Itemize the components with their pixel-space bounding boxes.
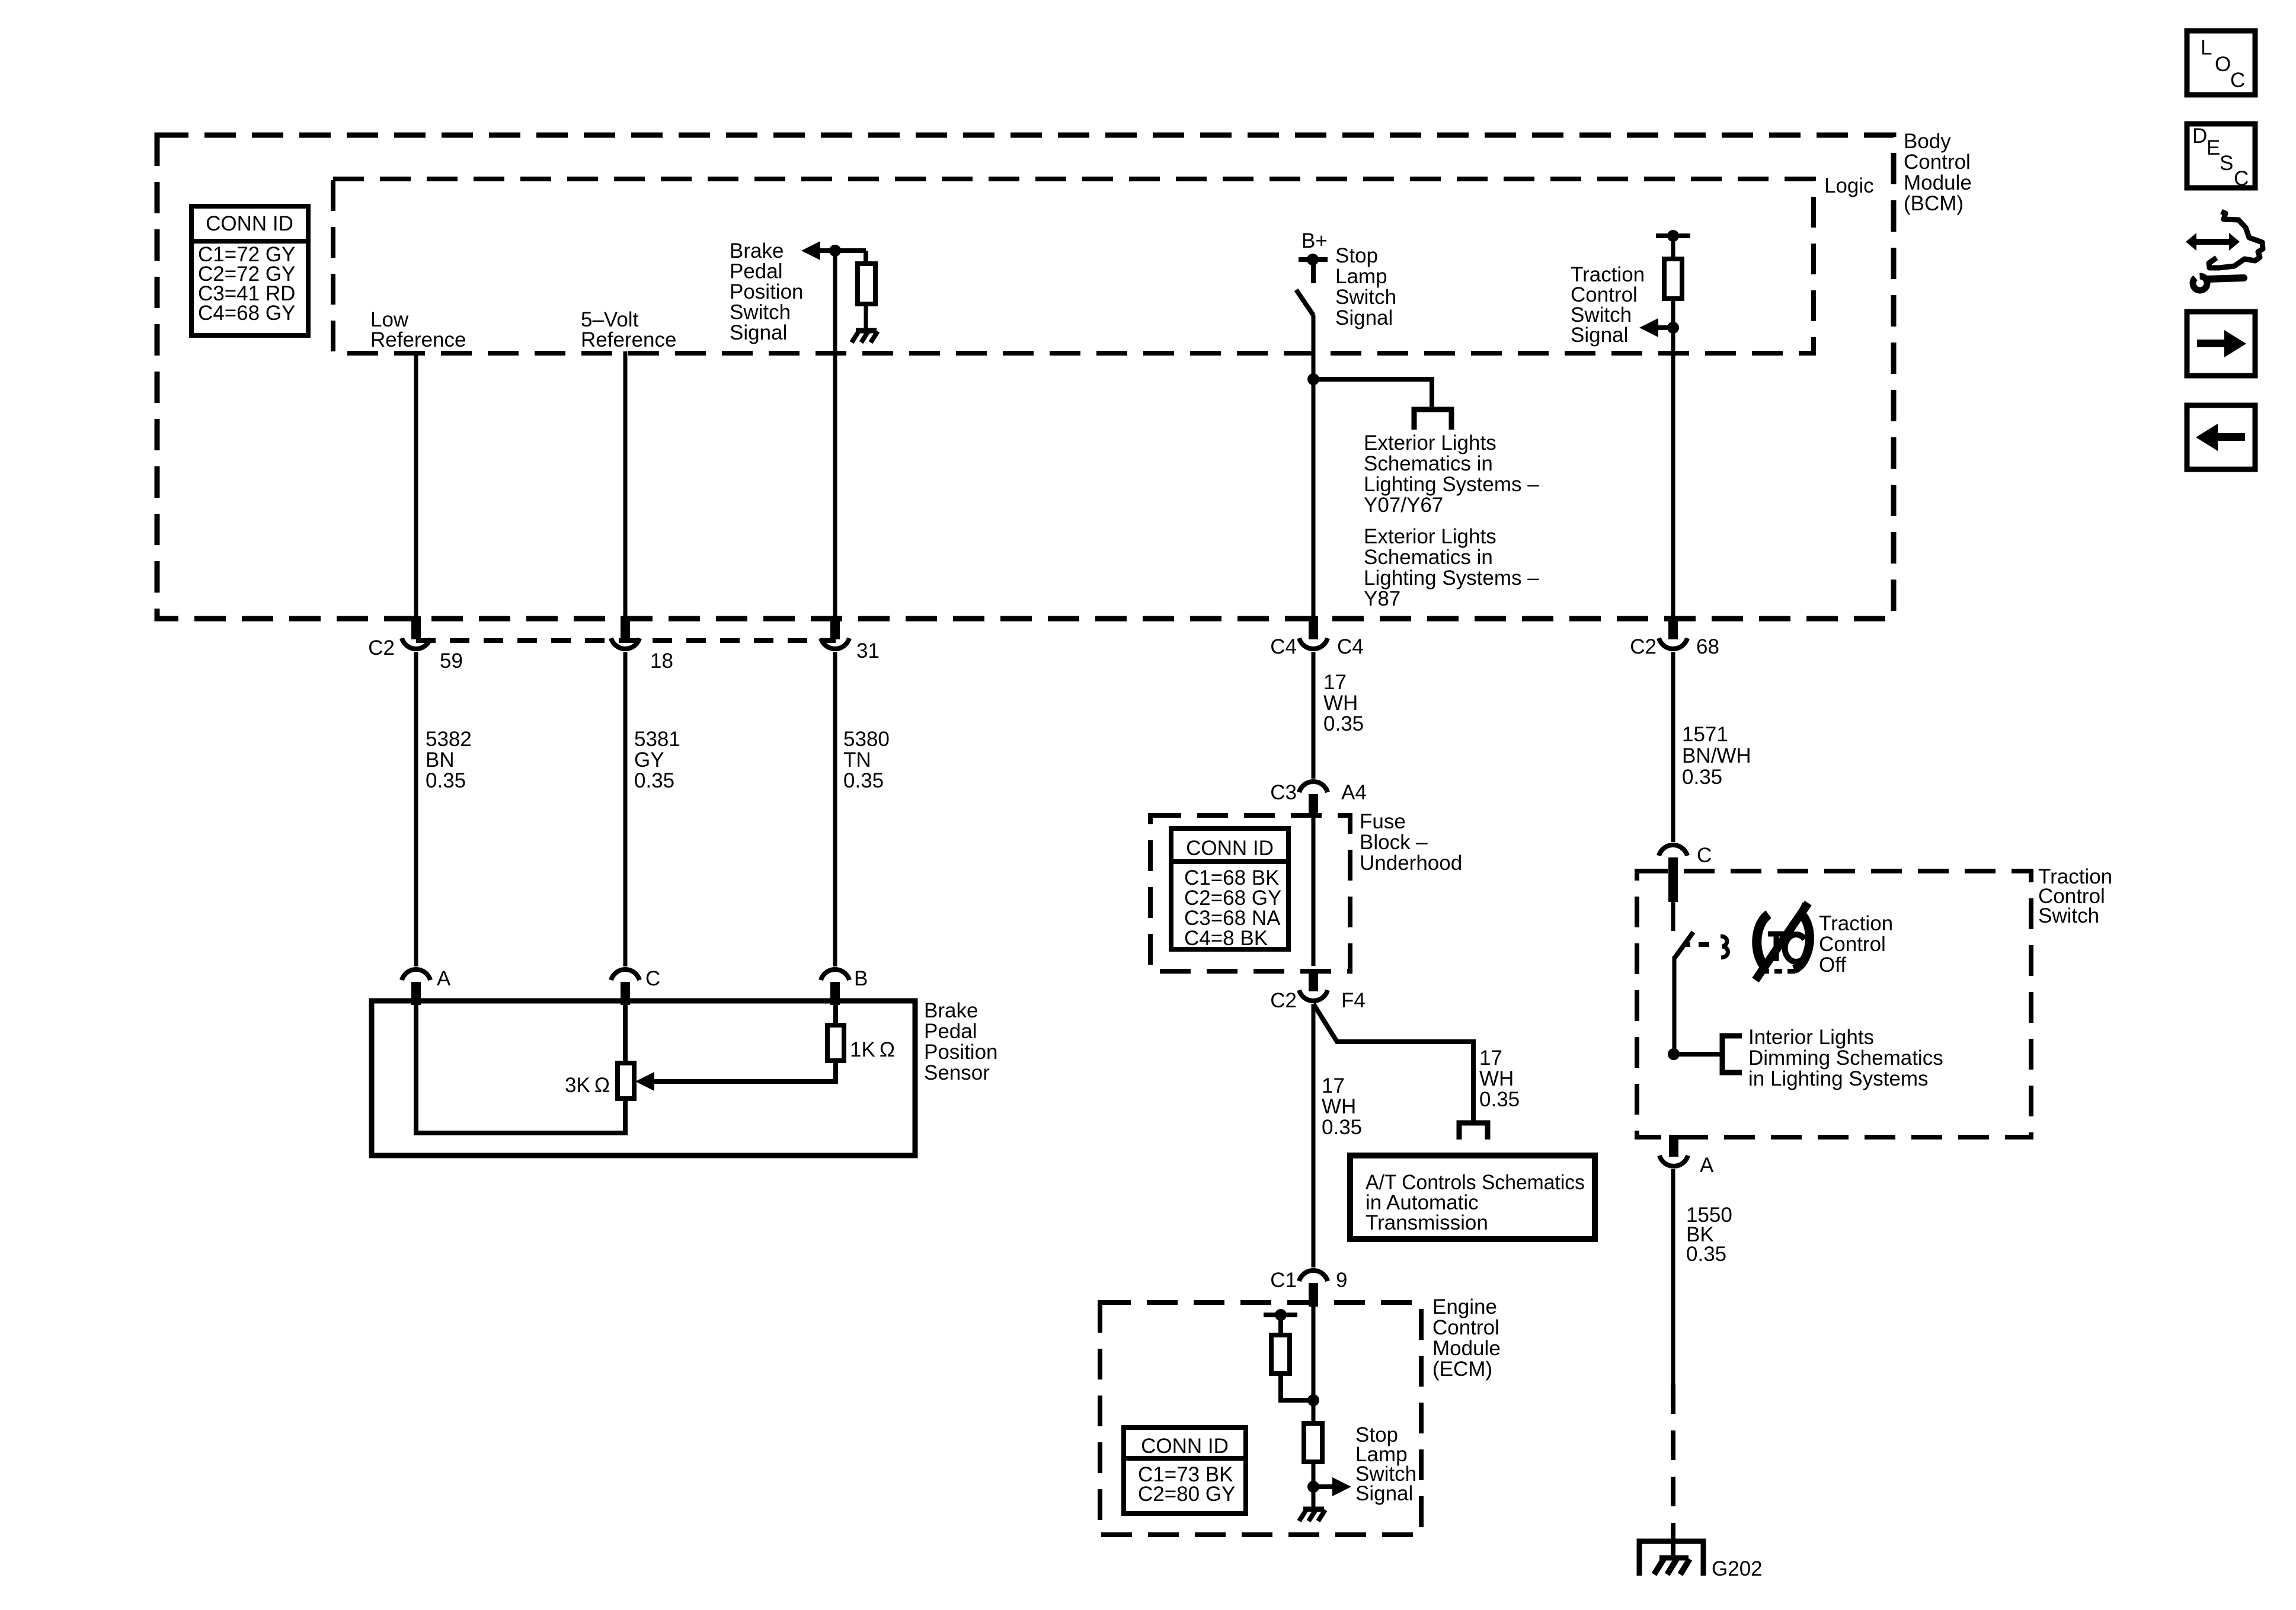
svg-text:C4=8 BK: C4=8 BK <box>1184 927 1268 950</box>
svg-text:S: S <box>2220 152 2233 175</box>
svg-text:C4: C4 <box>1270 635 1297 658</box>
svg-text:C: C <box>2230 69 2245 92</box>
svg-text:CONN ID: CONN ID <box>1141 1435 1229 1458</box>
svg-text:CONN ID: CONN ID <box>1186 837 1274 860</box>
svg-text:59: 59 <box>440 649 463 673</box>
svg-text:B: B <box>854 967 868 990</box>
svg-text:C2: C2 <box>1270 989 1297 1012</box>
svg-text:68: 68 <box>1696 635 1719 658</box>
svg-text:EngineControlModule(ECM): EngineControlModule(ECM) <box>1432 1295 1501 1381</box>
svg-text:31: 31 <box>856 639 880 662</box>
svg-text:O: O <box>2215 53 2231 76</box>
svg-text:A4: A4 <box>1341 781 1367 804</box>
svg-text:C2: C2 <box>368 636 395 660</box>
svg-text:A: A <box>437 967 451 990</box>
svg-text:C3: C3 <box>1270 781 1297 804</box>
svg-text:CONN ID: CONN ID <box>206 212 293 235</box>
svg-text:A: A <box>1700 1154 1714 1177</box>
svg-text:B+: B+ <box>1302 229 1328 252</box>
svg-text:D: D <box>2192 124 2207 148</box>
svg-text:C4=68 GY: C4=68 GY <box>198 302 295 325</box>
svg-text:C4: C4 <box>1337 635 1364 658</box>
svg-text:C: C <box>2234 167 2249 190</box>
svg-text:C: C <box>645 967 660 990</box>
svg-text:9: 9 <box>1336 1269 1347 1292</box>
svg-text:C2=80 GY: C2=80 GY <box>1138 1483 1235 1506</box>
svg-text:18: 18 <box>650 649 673 673</box>
svg-text:E: E <box>2207 136 2220 159</box>
svg-text:Logic: Logic <box>1824 174 1874 197</box>
svg-text:C2: C2 <box>1630 635 1657 658</box>
svg-text:C1: C1 <box>1270 1269 1297 1292</box>
svg-text:1K Ω: 1K Ω <box>850 1038 895 1061</box>
svg-text:L: L <box>2201 36 2212 59</box>
svg-text:G202: G202 <box>1712 1557 1763 1580</box>
svg-text:3K Ω: 3K Ω <box>565 1074 610 1097</box>
svg-text:C: C <box>1697 844 1712 867</box>
svg-text:F4: F4 <box>1341 989 1366 1012</box>
